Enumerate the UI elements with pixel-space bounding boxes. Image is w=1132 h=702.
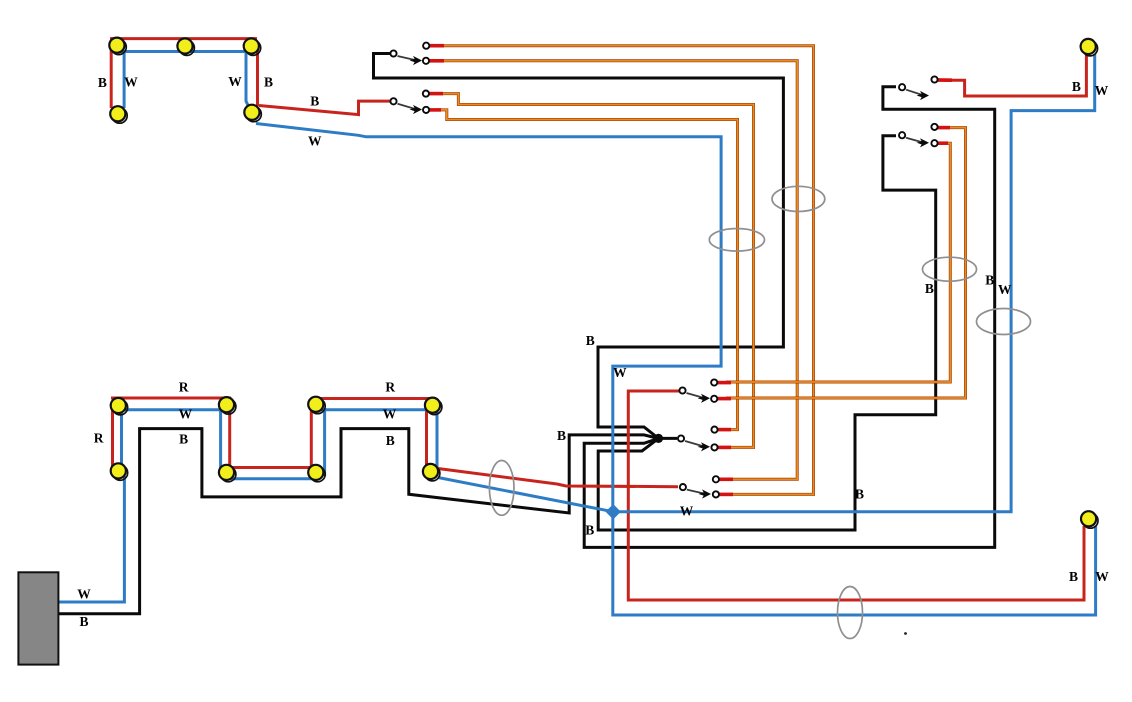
wire blue: mid cluster M3-M4 run <box>320 408 434 411</box>
svg-text:B: B <box>586 333 595 348</box>
lamp M2 <box>219 397 236 414</box>
wire red stub SB upper <box>718 428 731 432</box>
svg-text:W: W <box>680 504 694 519</box>
wire red: lamp M4 down to M8 <box>425 402 428 468</box>
svg-text:B: B <box>855 487 864 502</box>
wire red: switch SA common feed down and to lamp L8 bottom-right <box>628 391 1084 600</box>
wire blue: lamps L1-L2-L3 lower run <box>119 50 248 53</box>
svg-text:W: W <box>124 75 138 90</box>
svg-text:W: W <box>308 133 322 148</box>
wire red stub S2 lower <box>429 108 441 112</box>
svg-text:B: B <box>985 273 994 288</box>
svg-text:W: W <box>613 365 627 380</box>
wire red stub SB lower <box>718 446 731 450</box>
svg-text:B: B <box>179 432 188 447</box>
conduit marker E4 <box>977 309 1031 335</box>
wire red stub S1 lower <box>429 59 444 63</box>
wire red: lamp M2 down to M6 right side <box>228 410 231 470</box>
wire red B: lamp L3 down to lamp L5 <box>256 42 259 106</box>
wire blue W: lamp L5 long run to junction and bottom <box>256 124 1096 616</box>
svg-text:W: W <box>998 282 1012 297</box>
switch S2 (3-way) <box>390 91 429 115</box>
node: blue W junction (diamond) <box>606 504 621 519</box>
wire red: mid cluster M3-M4 top run <box>312 397 436 400</box>
svg-text:B: B <box>386 433 395 448</box>
wire blue W: lamp L3 down to lamp L5 <box>246 52 249 107</box>
wire T3 S2-upper to SB-lower (orange traveler) <box>440 94 754 448</box>
wire red stub S5 right <box>937 78 952 82</box>
wire T1 S1-upper to SC-lower (orange traveler) <box>441 46 814 495</box>
wire red stub SA lower <box>718 397 731 401</box>
node: black 4-way fan junction <box>654 434 663 443</box>
stray dot <box>904 632 907 635</box>
wire blue: lamp M4 down to M8 <box>436 406 439 470</box>
svg-text:B: B <box>1069 569 1078 584</box>
svg-text:W: W <box>1095 83 1109 98</box>
lamp L6 top-right <box>1081 39 1098 56</box>
wire blue: mid cluster M1-M2 run <box>116 408 228 411</box>
lamp M4 <box>425 398 442 415</box>
svg-text:B: B <box>264 75 273 90</box>
wire T6 SA-lower to S6-upper (orange traveler) <box>726 128 966 398</box>
lamp L3 <box>244 38 261 55</box>
svg-text:B: B <box>98 75 107 90</box>
lamp M3 <box>308 397 325 414</box>
switch SB (4-way) <box>678 427 718 452</box>
lamp L8 bottom-right <box>1081 511 1098 528</box>
svg-text:W: W <box>77 587 91 602</box>
conduit marker E3 <box>923 257 977 281</box>
switch SA (3-way) <box>679 379 717 403</box>
wire T5 SA-upper to S6-lower (orange traveler) <box>726 143 950 382</box>
wire T4 S2-lower to SB-upper (orange traveler) <box>437 110 738 430</box>
switch S5 (single-pole, top-right) <box>899 76 938 100</box>
wire red stub SC lower <box>719 493 733 497</box>
svg-text:R: R <box>385 380 395 395</box>
wire black feed: switch S5 to 4-way fan <box>584 87 995 548</box>
wire red stub SC upper <box>719 477 733 481</box>
svg-text:B: B <box>79 614 88 629</box>
wire black feed: panel to 4-way fan <box>58 429 659 614</box>
svg-text:B: B <box>925 281 934 296</box>
wire red B: lamp L1 down to lamp L4 <box>110 42 113 108</box>
wire black feed: switch S6 to 4-way fan <box>598 136 936 530</box>
switch SC (3-way) <box>680 476 719 498</box>
svg-text:W: W <box>179 407 193 422</box>
lamp L2 <box>177 38 194 55</box>
conduit marker E6 <box>838 587 863 639</box>
lamp L4 <box>110 106 127 123</box>
svg-text:B: B <box>1072 79 1081 94</box>
wire red B: lamp L5 to switch S2 common <box>259 101 390 115</box>
lamp M6 <box>219 465 236 482</box>
wire red stub S1 upper <box>429 44 444 48</box>
lamp L1 <box>109 38 126 55</box>
wire blue: M6 to M7 run <box>228 477 318 480</box>
wire red stub S6 lower <box>937 141 948 145</box>
panel (service box) <box>18 572 58 664</box>
svg-text:W: W <box>1095 569 1109 584</box>
lamp L5 <box>244 105 261 122</box>
wire blue: lamp M2 down to M6 left side <box>219 408 222 470</box>
svg-text:W: W <box>383 407 397 422</box>
wire red stub S2 upper <box>429 92 443 96</box>
svg-text:R: R <box>179 380 189 395</box>
wire red: lamp M3 up-left side <box>310 410 313 468</box>
lamp M8 <box>423 464 440 481</box>
wire blue: panel to lamp M5 <box>58 476 124 602</box>
switch S6 (3-way, right) <box>899 124 938 148</box>
wire red: M6 to M7 run <box>230 466 313 469</box>
svg-text:W: W <box>228 74 242 89</box>
wire red R: lamp M1 down to M5 <box>111 401 114 466</box>
conduit marker E1 <box>709 229 764 252</box>
svg-text:B: B <box>310 94 319 109</box>
wire blue: lamp M7 up right side to M3 <box>323 410 326 476</box>
wire blue: lamp M8 slope to junction <box>438 478 613 512</box>
lamp M1 <box>111 398 128 415</box>
conduit marker E5 <box>489 461 514 516</box>
wire black link: fan junction to switch SB common <box>659 437 678 440</box>
wire T2 S1-lower to SC-upper (orange traveler) <box>441 61 797 480</box>
wire red: lamp M8 to switch SC common <box>438 469 678 487</box>
lamp M7 <box>308 465 325 482</box>
wire blue W: top-right lamp L6 down-left-down to junction <box>614 54 1095 512</box>
svg-text:R: R <box>94 431 104 446</box>
wire red stub S6 upper <box>937 126 950 130</box>
wire red stub SA upper <box>718 381 731 385</box>
conduit marker E2 <box>772 186 825 211</box>
wire black feed: switch S1 to 4-way fan <box>374 54 784 439</box>
svg-text:B: B <box>557 428 566 443</box>
wire red: mid cluster M1-M2 top run <box>111 397 231 400</box>
lamp M5 <box>111 463 128 480</box>
switch S1 (3-way, top) <box>390 43 429 65</box>
wire red: lamps L1-L2-L3 top run <box>110 37 257 40</box>
wire blue W: lamp M1 down to M5 <box>120 408 123 468</box>
wire blue W: lamp L1 down to lamp L4 <box>123 50 126 108</box>
wire red: switch S5 terminal to top-right lamp L6 <box>938 54 1086 96</box>
svg-text:B: B <box>585 523 594 538</box>
